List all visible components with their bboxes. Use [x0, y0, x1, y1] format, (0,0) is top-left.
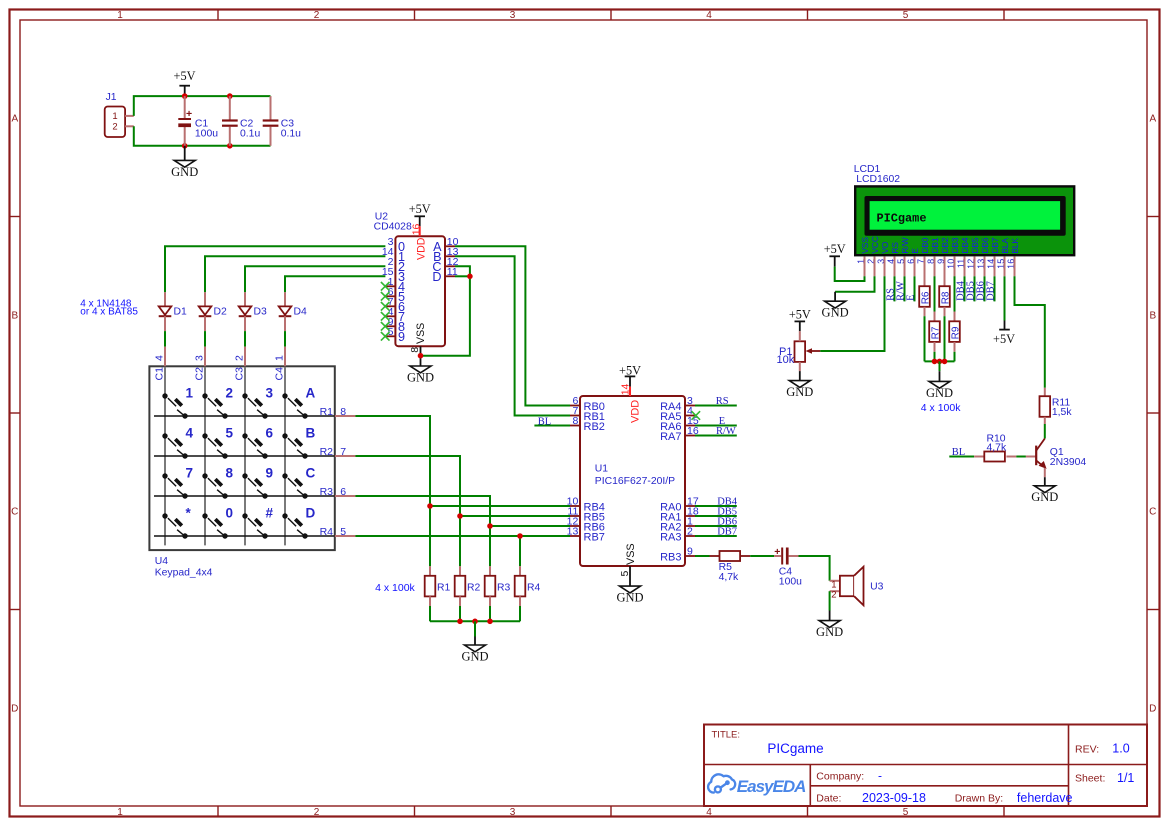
wire LCD pin11 DB4 with net label: [964, 276, 966, 301]
wire D2 cathode to keypad column: [204, 331, 206, 347]
svg-text:D3: D3: [254, 307, 268, 318]
wire LCD pin5 R/W with net label: [904, 276, 906, 301]
transistor Q1 2N3904: [1026, 456, 1036, 458]
svg-text:EasyEDA: EasyEDA: [737, 777, 806, 796]
wire U1 RB5 to R2 net: [460, 515, 570, 517]
title block dividers: [704, 764, 1147, 766]
wire U2 pin11 D joins C net: [455, 275, 470, 277]
svg-text:+: +: [186, 108, 192, 120]
junction +5V rail at C2: [227, 93, 233, 99]
svg-text:2: 2: [112, 122, 117, 133]
svg-text:3: 3: [194, 355, 206, 361]
svg-text:GND: GND: [926, 386, 953, 400]
svg-text:5: 5: [903, 807, 909, 818]
wire RA6 with net label E: [695, 425, 737, 427]
svg-text:GND: GND: [407, 370, 434, 384]
keypad row lines R1-R4: [154, 415, 335, 417]
svg-text:GND: GND: [616, 591, 643, 605]
svg-text:R7: R7: [931, 326, 942, 339]
wire R4 to ground bus: [519, 606, 521, 621]
EasyEDA logo: [708, 774, 735, 792]
svg-text:R/W: R/W: [716, 426, 736, 437]
wire LCD pin4 RS with net label: [894, 276, 896, 301]
junction GND rail at C2: [227, 143, 233, 149]
svg-text:VO: VO: [880, 241, 890, 254]
junction U2 D output: [467, 274, 473, 280]
junction U2 VSS node: [418, 353, 424, 359]
ground below U3: [819, 621, 840, 628]
svg-text:D: D: [432, 270, 441, 284]
svg-text:DB4: DB4: [960, 237, 970, 254]
svg-text:#: #: [266, 506, 274, 521]
svg-text:TITLE:: TITLE:: [712, 729, 741, 740]
svg-text:C4: C4: [274, 367, 286, 381]
svg-text:16: 16: [410, 223, 422, 235]
IC U1 PIC16F627-20I/P: [580, 396, 685, 566]
ground below Q1: [1034, 486, 1055, 493]
svg-text:C3: C3: [234, 367, 246, 381]
svg-text:9: 9: [266, 466, 274, 481]
svg-text:J1: J1: [106, 92, 117, 103]
junction bus at R2: [457, 619, 463, 625]
svg-text:2023-09-18: 2023-09-18: [862, 791, 926, 805]
svg-text:VCC: VCC: [870, 236, 880, 254]
pullup ground bus R6-R9: [925, 360, 955, 362]
svg-text:+5V: +5V: [174, 69, 196, 83]
wire U1 RB4 to R1 net: [430, 505, 570, 507]
wire D1 cathode to keypad column: [164, 331, 166, 347]
svg-text:Sheet:: Sheet:: [1075, 772, 1105, 784]
svg-text:8: 8: [409, 347, 421, 353]
svg-text:VSS: VSS: [860, 237, 870, 254]
wire R4 branch down to resistor R4: [519, 536, 521, 566]
wire U1 RB6 to R3 net: [490, 525, 570, 527]
svg-text:2: 2: [226, 386, 234, 401]
svg-text:BLA: BLA: [1000, 237, 1010, 253]
svg-text:4: 4: [154, 355, 166, 361]
wire D4 cathode to keypad column: [284, 331, 286, 347]
svg-text:REV:: REV:: [1075, 744, 1099, 756]
svg-text:R9: R9: [951, 326, 962, 339]
svg-text:*: *: [186, 506, 192, 521]
svg-text:DB7: DB7: [986, 281, 997, 301]
U2 right pin names A-D and numbers: [445, 245, 455, 247]
svg-text:B: B: [11, 311, 18, 322]
ground below P1: [789, 381, 810, 388]
ground bus under R1-R4: [430, 620, 520, 622]
svg-text:0: 0: [226, 506, 234, 521]
keypad U4 body: [149, 366, 334, 550]
wire LCD pin16 BLK to R11: [1015, 276, 1045, 388]
wire R1 to ground bus: [429, 606, 431, 621]
svg-text:5: 5: [619, 571, 631, 577]
svg-text:2: 2: [831, 590, 836, 601]
svg-text:R/W: R/W: [900, 237, 910, 253]
wire R10 to Q1 base: [1016, 456, 1026, 458]
svg-text:U3: U3: [870, 582, 884, 593]
title block outline: [704, 725, 1147, 807]
svg-text:8: 8: [226, 466, 234, 481]
svg-text:E: E: [906, 294, 917, 300]
svg-text:1: 1: [274, 355, 286, 361]
wire RB3 to R5: [695, 555, 710, 557]
svg-text:R3: R3: [497, 583, 511, 594]
svg-text:1: 1: [117, 807, 123, 818]
capacitor C2 (0.1u): [229, 96, 231, 120]
svg-text:D4: D4: [294, 307, 308, 318]
ground below R6-R9: [939, 361, 941, 371]
svg-text:1/1: 1/1: [1117, 771, 1134, 785]
svg-text:Date:: Date:: [816, 792, 841, 804]
svg-text:DB7: DB7: [990, 237, 1000, 254]
svg-text:+5V: +5V: [619, 363, 641, 377]
keypad column lines: [164, 367, 166, 545]
svg-text:+5V: +5V: [789, 308, 811, 322]
svg-text:R1: R1: [437, 583, 451, 594]
resistor R2 100k: [459, 566, 461, 576]
svg-text:4: 4: [706, 10, 712, 21]
wire RA7 with net label R/W: [695, 435, 737, 437]
svg-text:GND: GND: [816, 625, 843, 639]
resistor R7 100k at LCD DB1: [934, 256, 936, 276]
wire R6 to pullup bus: [924, 316, 926, 361]
svg-text:0.1u: 0.1u: [281, 128, 301, 139]
svg-text:100u: 100u: [195, 128, 218, 139]
svg-text:1,5k: 1,5k: [1052, 407, 1072, 418]
U1 left pins RB0-RB2, RB4-RB7: [570, 405, 580, 407]
svg-text:5: 5: [388, 326, 394, 338]
svg-text:R6: R6: [921, 291, 932, 304]
resistor R1 100k: [429, 566, 431, 576]
capacitor C4 100u electrolytic: [774, 555, 781, 557]
junction GND rail at C1: [182, 143, 188, 149]
resistor R11 1,5k: [1044, 388, 1046, 396]
diode D3 1N4148: [244, 292, 246, 306]
wire R5 to C4: [750, 555, 774, 557]
wire LCD pin14 DB7 with net label: [994, 276, 996, 301]
diode D1 1N4148: [164, 292, 166, 306]
ground below C1: [184, 146, 186, 161]
svg-text:4,7k: 4,7k: [719, 572, 739, 583]
resistor R5 4,7k: [710, 555, 720, 557]
svg-text:13: 13: [567, 526, 579, 538]
resistor R4 100k: [519, 566, 521, 576]
svg-text:R4: R4: [320, 526, 334, 538]
wire RA4 with net label RS: [695, 405, 737, 407]
svg-text:U4: U4: [155, 556, 169, 567]
+5V flag below LCD pin15 (inverted): [999, 329, 1010, 331]
svg-text:1: 1: [186, 386, 194, 401]
U2 VSS pin 8 to ground: [420, 346, 422, 366]
wire J1 pin1 to +5V rail: [134, 96, 271, 116]
svg-text:D: D: [306, 506, 316, 521]
wire R2 to ground bus: [459, 606, 461, 621]
no-connect marks U2 pins 1,6,7,4,9,5: [381, 282, 390, 291]
junction RB4 net: [427, 503, 433, 509]
svg-text:RA7: RA7: [660, 431, 681, 443]
svg-text:6: 6: [266, 426, 274, 441]
wire U2 pin14 to D2: [205, 256, 385, 292]
svg-text:Company:: Company:: [816, 770, 864, 782]
svg-text:D: D: [11, 704, 18, 715]
svg-text:4 x 100k: 4 x 100k: [921, 402, 961, 414]
wire LCD pin15 BLA to +5V: [1004, 276, 1006, 320]
wire LCD pin2 VCC to ground: [835, 276, 874, 292]
svg-text:9: 9: [687, 546, 693, 558]
wire J1 pin2 to GND rail: [134, 126, 271, 146]
wire LCD pin12 DB5 with net label: [974, 276, 976, 301]
junction RB6 net: [487, 523, 493, 529]
svg-text:PIC16F627-20I/P: PIC16F627-20I/P: [595, 476, 675, 487]
svg-text:14: 14: [619, 383, 631, 395]
svg-text:or 4 x BAT85: or 4 x BAT85: [80, 307, 138, 318]
svg-text:4: 4: [706, 807, 712, 818]
no-connect U1 RA5: [692, 411, 701, 420]
svg-text:A: A: [11, 114, 18, 125]
svg-text:A: A: [306, 386, 316, 401]
svg-text:8: 8: [572, 415, 578, 427]
wire keypad R2 to R2/RB5 net: [355, 456, 460, 566]
svg-text:RB7: RB7: [584, 531, 605, 543]
wire D3 cathode to keypad column: [244, 331, 246, 347]
svg-text:4,7k: 4,7k: [987, 442, 1007, 453]
wire LCD pin6 E with net label: [914, 276, 916, 301]
svg-text:Drawn By:: Drawn By:: [955, 792, 1003, 804]
wire C4 to speaker U3 pin1: [799, 556, 830, 581]
junction RB7 net: [517, 533, 523, 539]
wire U3 pin2 to ground: [829, 591, 831, 610]
svg-text:2: 2: [314, 807, 320, 818]
svg-text:DB6: DB6: [980, 237, 990, 254]
wire U2 pin2 to D3: [245, 266, 385, 292]
svg-text:2N3904: 2N3904: [1050, 457, 1087, 468]
junction +5V rail at C1: [182, 93, 188, 99]
wire LCD pin13 DB6 with net label: [984, 276, 986, 301]
svg-text:100u: 100u: [779, 577, 802, 588]
wire U2 pin10 A to U1 RB0: [455, 246, 570, 405]
svg-text:A: A: [1149, 114, 1156, 125]
frame row ticks: [10, 216, 20, 218]
svg-text:C: C: [306, 466, 316, 481]
svg-text:VDD: VDD: [630, 400, 642, 423]
svg-text:GND: GND: [786, 385, 813, 399]
speaker U3: [830, 580, 840, 582]
svg-text:B: B: [306, 426, 316, 441]
svg-text:Keypad_4x4: Keypad_4x4: [155, 567, 213, 578]
ground below R1-R4: [474, 621, 476, 636]
svg-text:DB5: DB5: [970, 237, 980, 254]
svg-text:DB3: DB3: [950, 237, 960, 254]
svg-text:7: 7: [186, 466, 194, 481]
svg-text:GND: GND: [171, 165, 198, 179]
svg-text:C: C: [11, 507, 18, 518]
svg-text:1: 1: [112, 111, 117, 122]
wire U2 pin15 to D4: [285, 276, 385, 292]
resistor R10 4,7k: [974, 456, 984, 458]
junction RB5 net: [457, 513, 463, 519]
svg-text:RA3: RA3: [660, 531, 681, 543]
capacitor C1 (electrolytic 100u): [184, 96, 186, 118]
svg-text:3: 3: [510, 10, 516, 21]
resistor R9 100k at LCD DB3: [954, 256, 956, 276]
svg-text:R2: R2: [467, 583, 481, 594]
wire R3 to ground bus: [489, 606, 491, 621]
svg-text:VSS: VSS: [415, 323, 427, 344]
keypad switches: [162, 393, 187, 418]
junction bus at ground tap: [472, 619, 478, 625]
wire keypad R4 to U1 RB7: [355, 535, 570, 537]
capacitor C3 (0.1u): [270, 96, 272, 120]
Q1 emitter to ground: [1044, 468, 1046, 477]
U1 right pins RA4-RA7, RA0-RA3, RB3: [685, 405, 695, 407]
svg-text:R3: R3: [320, 486, 334, 498]
svg-text:2: 2: [234, 355, 246, 361]
junction bus at ground tap R6-R9: [937, 359, 943, 365]
svg-text:C1: C1: [154, 367, 166, 381]
svg-text:R1: R1: [320, 406, 334, 418]
svg-text:feherdave: feherdave: [1017, 791, 1073, 805]
svg-text:VDD: VDD: [415, 237, 427, 260]
resistor R8 100k at LCD DB2: [944, 256, 946, 286]
svg-text:RS: RS: [716, 396, 729, 407]
wire keypad R1 to R1/RB4 net: [355, 416, 430, 566]
svg-text:+5V: +5V: [993, 332, 1015, 346]
wire RA1 with net label DB5: [695, 515, 737, 517]
svg-text:LCD1602: LCD1602: [856, 174, 900, 185]
wire U2 pin13 B to U1 RB1: [455, 256, 570, 415]
svg-text:GND: GND: [822, 306, 849, 320]
wire stub RB2 (BL): [534, 425, 570, 427]
svg-text:DB2: DB2: [940, 237, 950, 254]
svg-text:VSS: VSS: [625, 543, 637, 565]
diode D4 1N4148: [284, 292, 286, 306]
U1 VSS pin 5 to ground: [629, 566, 631, 586]
svg-text:C2: C2: [194, 367, 206, 381]
wire RA0 with net label DB4: [695, 505, 737, 507]
svg-text:CD4028: CD4028: [374, 221, 412, 232]
junction bus at R7: [932, 359, 938, 365]
wire U2 pin12 C to ground net: [421, 266, 470, 355]
svg-text:+: +: [774, 546, 780, 558]
svg-text:U1: U1: [595, 464, 609, 475]
svg-text:5: 5: [903, 10, 909, 21]
wire BL to R10: [949, 456, 974, 458]
ground below LCD pin2: [825, 301, 846, 308]
svg-text:PICgame: PICgame: [877, 212, 927, 226]
wire LCD pin3 VO to P1 wiper: [820, 276, 884, 351]
svg-text:RB3: RB3: [660, 551, 681, 563]
resistor R6 100k at LCD DB0: [924, 256, 926, 286]
svg-text:+5V: +5V: [824, 242, 846, 256]
svg-text:3: 3: [266, 386, 274, 401]
svg-text:C: C: [1149, 507, 1156, 518]
svg-text:10k: 10k: [777, 354, 795, 366]
svg-text:DB1: DB1: [930, 237, 940, 254]
wire RA2 with net label DB6: [695, 525, 737, 527]
svg-text:2: 2: [687, 526, 693, 538]
wire keypad R3 to R3/RB6 net: [355, 496, 490, 566]
svg-text:-: -: [878, 768, 882, 782]
junction bus at R8: [942, 359, 948, 365]
svg-text:RB2: RB2: [584, 421, 605, 433]
svg-text:R8: R8: [941, 291, 952, 304]
wire U2 pin3 to D1: [165, 246, 385, 292]
svg-text:2: 2: [314, 10, 320, 21]
frame column ticks: [217, 10, 219, 20]
svg-text:0.1u: 0.1u: [240, 128, 260, 139]
keypad column pins C1-C4: [164, 347, 166, 367]
svg-text:B: B: [1149, 311, 1156, 322]
junction bus at R3: [487, 619, 493, 625]
svg-text:D2: D2: [214, 307, 228, 318]
svg-text:BLK: BLK: [1010, 237, 1020, 253]
svg-text:D: D: [1149, 704, 1156, 715]
svg-text:R4: R4: [527, 583, 541, 594]
svg-text:DB0: DB0: [920, 237, 930, 254]
svg-text:+5V: +5V: [409, 202, 431, 216]
svg-text:4: 4: [186, 426, 194, 441]
svg-text:3: 3: [510, 807, 516, 818]
svg-text:1: 1: [831, 579, 836, 590]
svg-text:DB7: DB7: [717, 527, 737, 538]
svg-text:GND: GND: [461, 649, 488, 663]
svg-text:9: 9: [398, 330, 405, 344]
wire R11 to Q1 collector: [1044, 424, 1046, 439]
svg-text:PICgame: PICgame: [767, 741, 823, 756]
diode D2 1N4148: [204, 292, 206, 306]
svg-text:5: 5: [226, 426, 234, 441]
svg-text:1: 1: [117, 10, 123, 21]
svg-text:1.0: 1.0: [1112, 742, 1129, 756]
resistor R3 100k: [489, 566, 491, 576]
wire RA3 with net label DB7: [695, 535, 737, 537]
P1 bottom to ground: [799, 362, 801, 371]
svg-text:D1: D1: [174, 307, 188, 318]
svg-text:GND: GND: [1031, 490, 1058, 504]
ground below U2: [410, 366, 431, 373]
svg-text:4 x 100k: 4 x 100k: [375, 582, 415, 594]
wire +5V to LCD pin1: [835, 267, 865, 281]
svg-text:RS: RS: [890, 242, 900, 254]
svg-text:E: E: [910, 248, 920, 254]
ground below U1: [620, 586, 641, 593]
svg-text:R2: R2: [320, 446, 334, 458]
